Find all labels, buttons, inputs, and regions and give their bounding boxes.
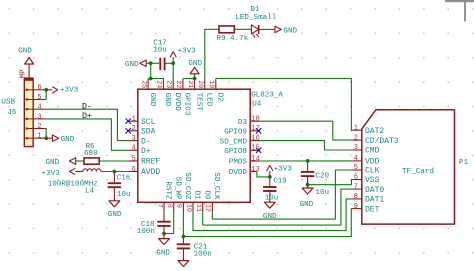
svg-text:18: 18 — [251, 116, 259, 124]
svg-text:13: 13 — [251, 166, 259, 174]
svg-text:VDD: VDD — [365, 158, 380, 167]
wire C20 bottom to P1 pin 6 VSS — [308, 180, 353, 185]
svg-text:P1: P1 — [459, 159, 469, 167]
svg-text:12: 12 — [204, 204, 212, 212]
svg-text:10u: 10u — [315, 189, 329, 197]
wire pins 22-21 GND tie — [183, 78, 195, 80]
svg-text:SD_CLK: SD_CLK — [212, 172, 220, 200]
svg-text:2: 2 — [354, 134, 358, 142]
svg-text:23: 23 — [165, 80, 173, 88]
svg-text:RSTZ: RSTZ — [164, 181, 172, 200]
wire D1 from U4 pin 10 to P1 pin 8 DAT1 — [193, 199, 352, 231]
svg-text:20: 20 — [196, 80, 204, 88]
power symbol GND under C21 — [178, 261, 189, 267]
svg-text:7: 7 — [155, 204, 163, 208]
U4 pin 25 GND (top) — [147, 79, 149, 90]
wire pin5 to pin6 tie — [45, 90, 47, 100]
svg-text:100n: 100n — [194, 251, 212, 259]
svg-text:GND: GND — [283, 27, 297, 35]
wire GND flag to C17 — [146, 62, 159, 64]
svg-text:TEST: TEST — [194, 93, 202, 112]
no-connect X on U4 pin 1 — [126, 119, 131, 124]
P1 pin 6 VSS — [352, 179, 362, 181]
svg-text:SD_COZ: SD_COZ — [183, 172, 191, 200]
wire +3V3 down to pin 23 — [172, 63, 174, 78]
U4 pin 14 PMOS (right) — [250, 160, 260, 162]
junction at AVDD node — [113, 170, 117, 174]
svg-text:GPIO8: GPIO8 — [224, 148, 247, 156]
power symbol GND under C16 — [109, 201, 120, 207]
svg-text:2: 2 — [132, 125, 136, 133]
svg-text:DAT2: DAT2 — [365, 127, 384, 136]
svg-text:4: 4 — [37, 104, 41, 112]
svg-text:GND: GND — [156, 250, 170, 258]
power symbol +3V3 at DVDD node — [269, 171, 271, 177]
svg-text:D2: D2 — [216, 93, 224, 103]
svg-text:GPIO9: GPIO9 — [224, 129, 247, 137]
svg-text:D3: D3 — [238, 119, 248, 127]
U4 pin 12 SD_CLK (bottom) — [211, 202, 213, 212]
svg-text:DVDD: DVDD — [229, 169, 248, 177]
svg-text:+3V3: +3V3 — [274, 166, 293, 174]
power symbol GND at J6 pin 1 — [46, 137, 52, 139]
LED D1 LED_Small — [251, 25, 258, 34]
resistor R9 4.7k — [219, 26, 234, 33]
svg-text:SCL: SCL — [141, 118, 156, 127]
wire L4 to U4 pin 6 AVDD — [101, 171, 128, 173]
junction at C20 top — [306, 159, 310, 163]
svg-text:DET: DET — [365, 205, 380, 214]
junction at J6 pin 6 — [44, 88, 48, 92]
P1 pin 1 DAT2 — [352, 129, 362, 131]
P1 pin 7 DAT0 — [352, 188, 362, 190]
svg-text:24: 24 — [155, 80, 163, 88]
svg-text:25: 25 — [139, 80, 147, 88]
junction at C20 bottom — [306, 183, 310, 187]
svg-text:GND: GND — [125, 61, 139, 69]
svg-text:DAT1: DAT1 — [365, 196, 384, 205]
sheet frame corner (top right) — [445, 0, 474, 2]
connector J6 pin 2 — [27, 128, 33, 130]
P1 pin 2 CD/DAT3 — [352, 139, 362, 141]
wire C17 node down to pin 25 — [150, 63, 152, 78]
svg-text:GND: GND — [163, 93, 171, 107]
svg-text:+3V3: +3V3 — [42, 170, 61, 178]
U4 pin 24 GND (top) — [162, 79, 164, 90]
svg-text:U4: U4 — [252, 101, 262, 109]
svg-text:2: 2 — [37, 123, 41, 131]
svg-text:+3V3: +3V3 — [60, 87, 79, 95]
wire SD_CLK from U4 pin 12 to P1 pin 5 CLK — [212, 170, 352, 219]
svg-text:9: 9 — [175, 204, 183, 208]
svg-text:D+: D+ — [82, 112, 92, 121]
svg-text:GND: GND — [18, 48, 32, 56]
svg-text:MP: MP — [20, 70, 28, 78]
wire R9 to D1 — [234, 28, 251, 30]
wire pins 25-24 GND tie — [148, 78, 163, 80]
svg-text:8: 8 — [354, 193, 358, 201]
wire D1 to GND flag — [259, 28, 275, 30]
svg-text:GND: GND — [61, 136, 75, 144]
U4 pin 19 D2 (top) — [215, 79, 217, 90]
connector J6 body — [24, 79, 33, 147]
svg-text:RREF: RREF — [141, 158, 160, 167]
svg-text:CD/DAT3: CD/DAT3 — [365, 137, 399, 146]
svg-text:GND: GND — [300, 201, 314, 209]
svg-text:GL823_A: GL823_A — [251, 91, 283, 99]
junction at pin 21 — [193, 77, 197, 81]
svg-text:USB: USB — [1, 98, 15, 106]
capacitor C21 100n — [182, 237, 184, 244]
svg-text:PMOS: PMOS — [229, 159, 248, 167]
connector P1 TF_Card body — [362, 110, 455, 224]
U4 pin 11 D0 (bottom) — [202, 202, 204, 212]
capacitor C17 10u — [159, 58, 161, 71]
svg-text:5: 5 — [37, 94, 41, 102]
resistor R6 680 — [84, 158, 99, 164]
svg-text:19: 19 — [207, 80, 215, 88]
svg-text:10u: 10u — [153, 46, 167, 54]
connector J6 pin 3 — [27, 118, 33, 120]
wire pin2 to pin1 tie — [45, 129, 47, 139]
capacitor C20 10u — [307, 161, 309, 171]
wire D2 from U4 pin 19 to P1 pin 1 DAT2 — [216, 79, 352, 131]
power symbol +3V3 at J6 pin 6 — [46, 89, 52, 91]
inductor L4 100R@100MHz — [83, 169, 101, 172]
svg-text:3: 3 — [132, 135, 136, 143]
connector J6 pin 6 — [27, 89, 33, 91]
svg-text:1: 1 — [37, 133, 41, 141]
svg-text:GND: GND — [263, 213, 277, 221]
U4 pin 20 LED (top) — [204, 79, 206, 90]
svg-text:D1: D1 — [250, 6, 260, 14]
wire D+ from J6 pin 3 to U4 pin 4 — [46, 119, 128, 150]
svg-text:7: 7 — [354, 183, 358, 191]
U4 pin 9 SD_COZ (bottom) — [182, 202, 184, 212]
junction at C21 top — [182, 235, 186, 239]
junction at J6 pin 1 — [44, 136, 48, 140]
IC U4 GL823_A body — [138, 89, 250, 202]
svg-text:15: 15 — [251, 145, 259, 153]
wire D0 from U4 pin 11 to P1 pin 7 DAT0 — [203, 189, 352, 225]
svg-text:D-: D- — [141, 137, 151, 146]
svg-text:5: 5 — [132, 155, 136, 163]
svg-text:SDA: SDA — [141, 128, 156, 137]
svg-text:LED: LED — [205, 93, 213, 107]
junction right of C17 — [171, 61, 175, 65]
svg-text:C20: C20 — [315, 172, 329, 180]
svg-text:6: 6 — [37, 84, 41, 92]
U4 pin 22 GPIO3 (top) — [182, 79, 184, 90]
svg-text:D0: D0 — [202, 190, 210, 200]
wire U4 pin 20 LED up to R9 — [205, 29, 219, 78]
svg-text:9: 9 — [354, 203, 358, 211]
wire U4 pin 13 DVDD to +3V3 node — [257, 172, 270, 177]
svg-text:22: 22 — [174, 80, 182, 88]
U4 pin 8 SD_WP (bottom) — [173, 202, 175, 212]
svg-text:GND: GND — [46, 159, 60, 167]
U4 pin 3 D- (left) — [128, 140, 138, 142]
svg-text:DVDD: DVDD — [173, 93, 181, 112]
svg-text:CMD: CMD — [365, 147, 380, 156]
wire R6 to U4 pin 5 RREF — [99, 160, 128, 162]
svg-text:10u: 10u — [117, 191, 131, 199]
P1 pin 3 CMD — [352, 149, 362, 151]
svg-text:D1: D1 — [193, 190, 201, 200]
junction at C18 bottom — [162, 232, 166, 236]
U4 pin 1 SCL (left) — [128, 120, 138, 122]
wire D- from J6 pin 4 to U4 pin 3 — [46, 109, 128, 140]
svg-text:8: 8 — [165, 204, 173, 208]
U4 pin 5 RREF (left) — [128, 160, 138, 162]
U4 pin 13 DVDD (right) — [250, 171, 257, 173]
no-connect X on U4 pin 2 — [126, 128, 131, 133]
svg-text:J6: J6 — [7, 109, 17, 117]
power symbol +3V3 above U4 pin 23 — [172, 57, 174, 63]
svg-text:SD_CMD: SD_CMD — [220, 138, 248, 146]
U4 pin 16 SD_CMD (right) — [250, 140, 260, 142]
svg-text:L4: L4 — [85, 187, 95, 195]
capacitor C18 100n — [163, 212, 165, 221]
svg-text:16: 16 — [251, 135, 259, 143]
wire GND to R6 — [76, 160, 84, 162]
svg-text:680: 680 — [84, 150, 98, 158]
svg-text:DAT0: DAT0 — [365, 186, 384, 195]
power symbol GND under C19 — [264, 202, 275, 208]
U4 pin 4 D+ (left) — [128, 149, 138, 151]
P1 pin 9 DET — [352, 208, 362, 210]
svg-text:4: 4 — [132, 145, 136, 153]
svg-text:GND: GND — [148, 93, 156, 107]
U4 pin 10 D1 (bottom) — [192, 202, 194, 212]
svg-text:GPIO3: GPIO3 — [183, 93, 191, 116]
svg-text:GND: GND — [108, 211, 122, 219]
svg-text:6: 6 — [132, 166, 136, 174]
svg-text:1: 1 — [132, 116, 136, 124]
no-connect X on U4 pin 15 — [256, 148, 261, 153]
svg-text:D+: D+ — [141, 147, 151, 156]
U4 pin 7 RSTZ (bottom) — [163, 202, 165, 212]
wire PMOS from U4 pin 14 to P1 pin 4 VDD — [260, 160, 352, 162]
svg-text:4: 4 — [354, 155, 358, 163]
svg-text:10u: 10u — [265, 195, 279, 203]
wire C17 to +3V3 node — [165, 62, 174, 64]
svg-text:6: 6 — [354, 174, 358, 182]
P1 pin 8 DAT1 — [352, 198, 362, 200]
wire D3 from U4 pin 18 to P1 pin 2 CD/DAT3 — [260, 121, 352, 140]
U4 pin 17 GPIO9 (right) — [250, 130, 260, 132]
svg-text:GND: GND — [188, 60, 202, 68]
capacitor C16 10u — [113, 172, 115, 183]
svg-text:100n: 100n — [137, 228, 155, 236]
power symbol GND right of D1 — [275, 26, 281, 32]
svg-text:11: 11 — [194, 204, 202, 212]
connector J6 pin 4 — [27, 108, 33, 110]
svg-text:C19: C19 — [273, 178, 287, 186]
connector J6 pin 5 — [27, 99, 33, 101]
U4 pin 18 D3 (right) — [250, 120, 260, 122]
svg-text:10: 10 — [184, 204, 192, 212]
connector J6 pin 1 — [27, 137, 33, 139]
svg-text:SD_WP: SD_WP — [173, 177, 181, 200]
P1 pin 5 CLK — [352, 169, 362, 171]
U4 pin 15 GPIO8 (right) — [250, 149, 260, 151]
svg-text:21: 21 — [186, 80, 194, 88]
junction at DVDD node — [268, 175, 272, 179]
svg-text:CLK: CLK — [365, 167, 380, 176]
wire SD_CMD from U4 pin 16 to P1 pin 3 CMD — [260, 141, 352, 150]
junction at pin 25 — [149, 77, 153, 81]
svg-text:R9 4.7k: R9 4.7k — [216, 35, 248, 43]
wire SD_COZ from U4 pin 9 to P1 pin 9 DET — [183, 209, 352, 237]
svg-text:+3V3: +3V3 — [178, 47, 197, 55]
svg-text:AVDD: AVDD — [141, 168, 160, 177]
U4 pin 6 AVDD (left) — [128, 171, 138, 173]
svg-text:17: 17 — [251, 125, 259, 133]
U4 pin 2 SDA (left) — [128, 130, 138, 132]
power symbol GND under C18 — [163, 234, 165, 239]
svg-text:3: 3 — [37, 113, 41, 121]
no-connect X on U4 pin 17 — [256, 128, 261, 133]
svg-text:LED_Small: LED_Small — [235, 14, 276, 22]
svg-text:14: 14 — [251, 155, 259, 163]
svg-text:5: 5 — [354, 164, 358, 172]
svg-text:1: 1 — [354, 124, 358, 132]
capacitor C19 10u — [269, 177, 271, 186]
svg-text:D-: D- — [82, 102, 92, 111]
svg-text:VSS: VSS — [365, 176, 380, 185]
svg-text:TF_Card: TF_Card — [402, 168, 434, 176]
P1 pin 4 VDD — [352, 160, 362, 162]
U4 pin 21 TEST (top) — [194, 79, 196, 90]
svg-text:C16: C16 — [117, 174, 131, 182]
U4 pin 23 DVDD (top) — [172, 79, 174, 90]
wire U4 pin 8 tie to C18 bottom — [164, 212, 174, 234]
power symbol GND under C20 — [307, 185, 309, 188]
svg-text:3: 3 — [354, 144, 358, 152]
junction left of C17 — [149, 61, 153, 65]
